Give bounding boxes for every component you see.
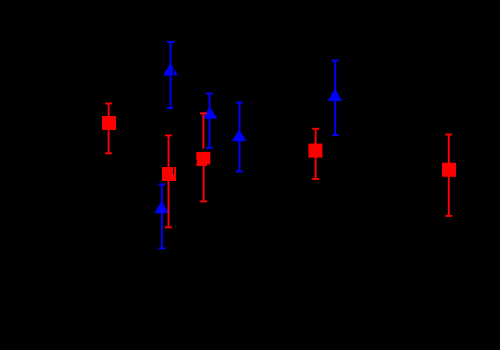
black overdraw notch on left edge of square 5 — [196, 160, 197, 163]
blue triangle marker 9 — [328, 89, 343, 102]
black overdraw bar crossing triangle 2 and square 3 — [173, 69, 175, 175]
red error bar of point 5, upper segment with top cap — [200, 113, 207, 148]
red square marker 10 — [442, 163, 456, 177]
error bar of blue point 9 — [332, 61, 339, 136]
error bar of red point 3 — [165, 135, 172, 227]
red error bar of point 5, lower segment with bottom cap — [200, 165, 207, 201]
error bar of blue point 4 — [158, 184, 165, 248]
error bar of blue point 6 — [206, 94, 213, 148]
error bar of blue point 2 — [167, 42, 174, 108]
red square marker 8 — [308, 144, 322, 158]
blue triangle marker 2 — [163, 63, 178, 76]
red square marker 5 — [196, 152, 210, 166]
error bar of red point 10 — [445, 135, 452, 216]
error bar of red point 1 — [105, 104, 112, 154]
error bar of blue point 7 — [236, 103, 243, 172]
black overdraw notch on bottom-right corner of square 5 — [207, 164, 211, 166]
red square marker 1 — [102, 116, 116, 130]
blue triangle marker 7 — [232, 129, 247, 141]
blue triangle marker 4 — [154, 201, 169, 213]
red square marker 3 — [162, 167, 176, 181]
error bar of red point 8 — [312, 129, 319, 179]
blue triangle marker 6 — [203, 106, 218, 118]
